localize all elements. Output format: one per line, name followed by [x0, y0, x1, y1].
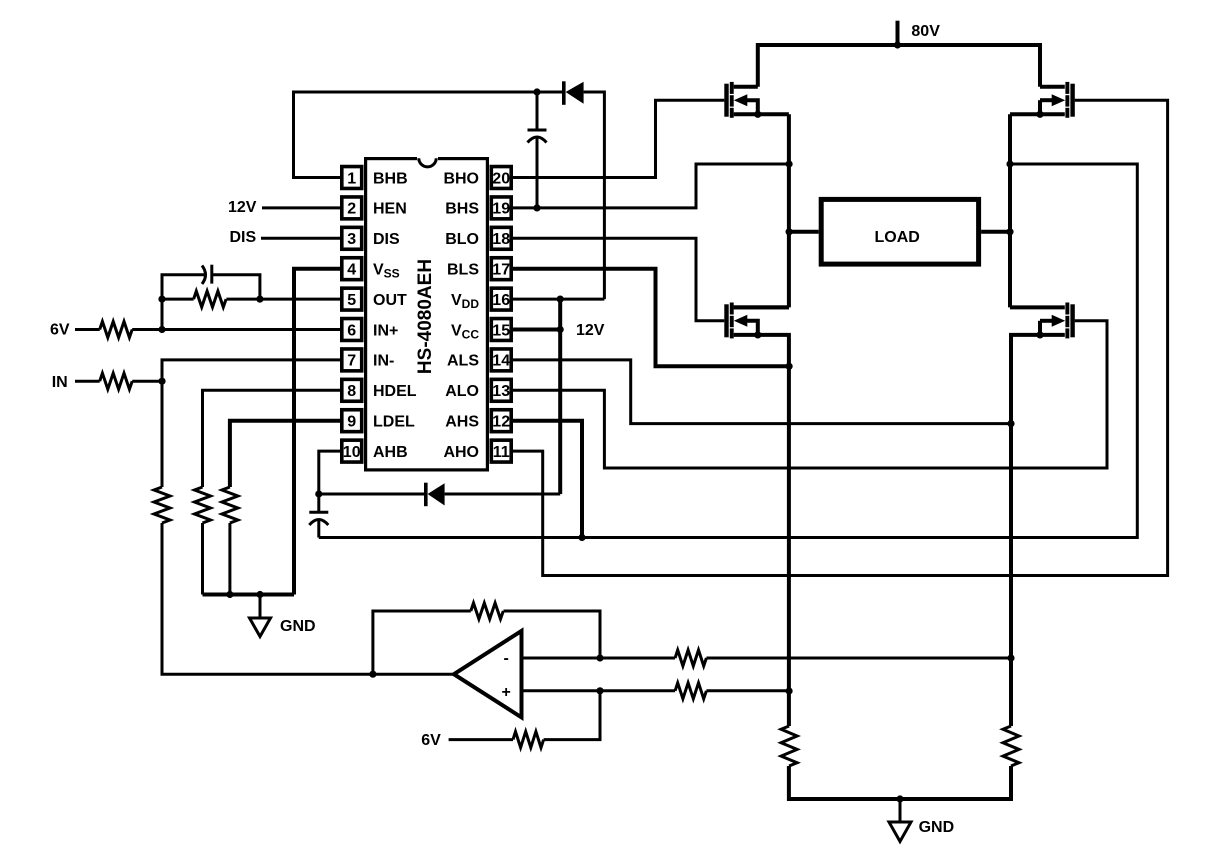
svg-text:HEN: HEN	[373, 201, 407, 218]
svg-text:15: 15	[492, 322, 510, 339]
svg-text:12V: 12V	[228, 199, 257, 216]
svg-text:18: 18	[492, 231, 510, 248]
svg-text:AHO: AHO	[443, 444, 479, 461]
svg-text:20: 20	[492, 170, 510, 187]
svg-text:BHS: BHS	[445, 201, 479, 218]
svg-text:6V: 6V	[421, 732, 441, 749]
svg-text:BHO: BHO	[443, 170, 479, 187]
svg-text:+: +	[502, 684, 511, 701]
svg-text:12V: 12V	[576, 322, 605, 339]
svg-text:10: 10	[343, 444, 361, 461]
svg-text:11: 11	[493, 444, 510, 461]
svg-text:GND: GND	[280, 618, 316, 635]
svg-text:BLO: BLO	[445, 231, 479, 248]
svg-text:4: 4	[347, 262, 356, 279]
svg-text:HS-4080AEH: HS-4080AEH	[415, 259, 436, 374]
svg-text:BLS: BLS	[447, 262, 479, 279]
svg-text:BHB: BHB	[373, 170, 408, 187]
svg-text:AHS: AHS	[445, 414, 479, 431]
svg-text:HDEL: HDEL	[373, 383, 417, 400]
svg-text:ALS: ALS	[447, 353, 479, 370]
svg-text:LDEL: LDEL	[373, 414, 415, 431]
svg-text:ALO: ALO	[445, 383, 479, 400]
svg-text:-: -	[504, 650, 509, 667]
svg-text:OUT: OUT	[373, 292, 407, 309]
svg-text:IN+: IN+	[373, 322, 398, 339]
svg-text:12: 12	[492, 414, 510, 431]
svg-text:80V: 80V	[911, 23, 940, 40]
svg-text:6V: 6V	[50, 322, 70, 339]
svg-text:19: 19	[492, 201, 510, 218]
svg-text:9: 9	[347, 414, 356, 431]
svg-text:6: 6	[347, 322, 356, 339]
svg-text:IN: IN	[52, 374, 68, 391]
svg-text:GND: GND	[919, 819, 955, 836]
svg-text:17: 17	[492, 262, 510, 279]
svg-text:DIS: DIS	[373, 231, 400, 248]
svg-text:5: 5	[347, 292, 356, 309]
svg-text:IN-: IN-	[373, 353, 394, 370]
svg-text:DIS: DIS	[230, 229, 257, 246]
svg-text:2: 2	[347, 201, 356, 218]
svg-text:16: 16	[492, 292, 510, 309]
svg-text:LOAD: LOAD	[875, 229, 920, 246]
svg-text:8: 8	[347, 383, 356, 400]
svg-text:14: 14	[492, 353, 510, 370]
svg-text:7: 7	[347, 353, 356, 370]
svg-text:1: 1	[347, 170, 356, 187]
svg-text:13: 13	[492, 383, 510, 400]
svg-text:3: 3	[347, 231, 356, 248]
svg-text:AHB: AHB	[373, 444, 408, 461]
